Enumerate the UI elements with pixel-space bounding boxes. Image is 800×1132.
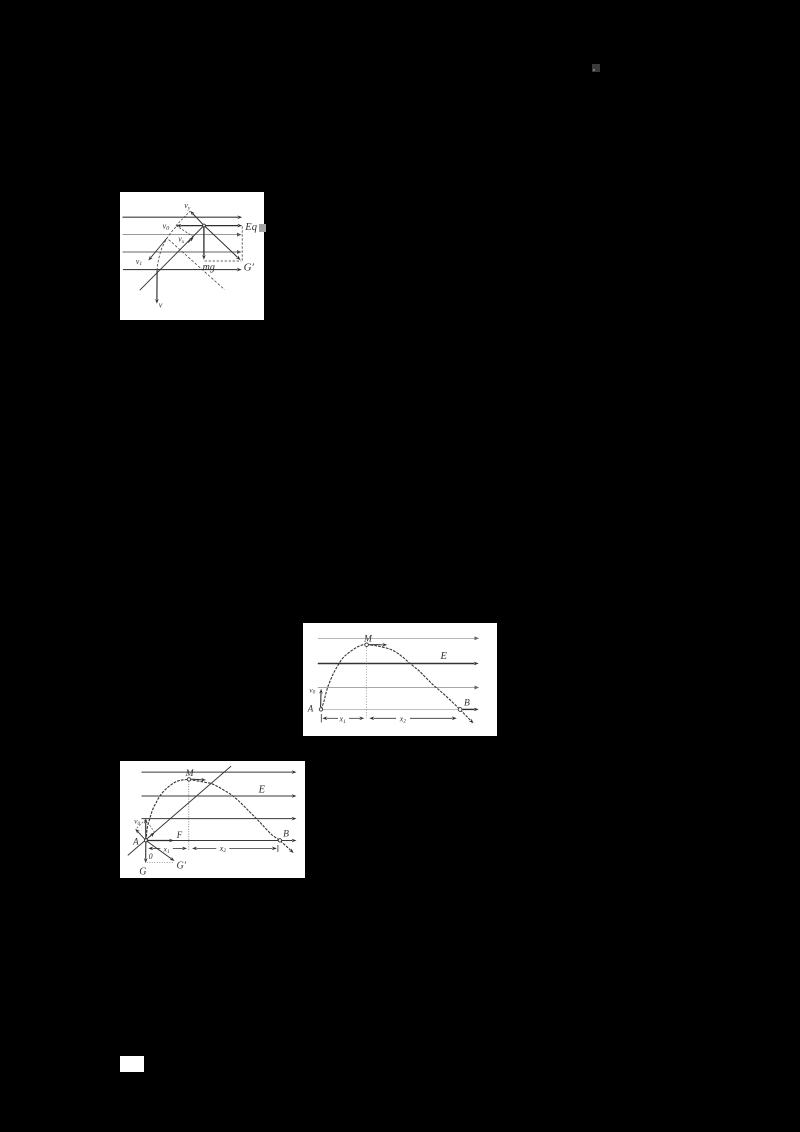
svg-text:x2: x2 <box>399 714 407 724</box>
vector G' <box>205 226 238 257</box>
vector G' <box>146 840 171 858</box>
arrowhead on diagonal near A <box>149 835 151 837</box>
svg-text:x2: x2 <box>218 843 226 853</box>
svg-text:E: E <box>257 784 265 795</box>
field line 3 <box>141 817 292 819</box>
svg-text:G: G <box>139 866 146 877</box>
dotted drop line from M <box>187 781 189 851</box>
trajectory right M to B and beyond <box>367 644 471 720</box>
vector v0 <box>181 225 204 227</box>
dashed side v0-vy <box>176 211 190 225</box>
svg-text:B: B <box>464 698 470 708</box>
svg-text:v0: v0 <box>309 685 315 695</box>
field line 1 <box>141 771 292 773</box>
svg-text:0: 0 <box>148 851 152 860</box>
node M <box>187 777 190 780</box>
vector mg <box>203 227 205 256</box>
bottom-left white chip <box>120 1056 144 1072</box>
field line 3 <box>318 686 475 688</box>
field line 4 <box>123 269 238 271</box>
x2 end tick <box>277 845 279 852</box>
svg-text:M: M <box>184 769 194 779</box>
field line 2 E <box>318 662 475 664</box>
vector v0 at A <box>320 693 322 707</box>
gray glyph block beside Eq <box>259 224 266 232</box>
dotted drop line from M <box>365 647 367 718</box>
baseline through A and B <box>321 708 470 710</box>
dashed parallelogram side horizontal <box>205 260 242 262</box>
dotted G to G' <box>146 861 172 863</box>
svg-text:M: M <box>363 634 373 644</box>
trajectory left A to M <box>146 779 189 840</box>
vx arrowhead on diagonal <box>188 240 191 243</box>
svg-text:v0: v0 <box>163 221 170 233</box>
svg-text:x1: x1 <box>339 714 347 724</box>
svg-text:G′: G′ <box>244 262 255 274</box>
field line 2 <box>141 795 292 797</box>
x1 dimension arrows <box>152 847 160 849</box>
perpendicular component arrow at A <box>138 831 146 840</box>
svg-text:F: F <box>175 830 182 840</box>
x1 dimension tick at A <box>320 714 322 723</box>
svg-text:v: v <box>159 301 163 310</box>
dashed side v0 to diagonal tip <box>145 819 154 832</box>
node M <box>365 642 369 646</box>
dashed side v0-vx <box>176 226 193 237</box>
vector v <box>156 270 158 299</box>
x1 dimension arrows <box>327 717 339 719</box>
node A <box>319 707 322 710</box>
dashed parallelogram side vertical <box>241 226 243 260</box>
svg-text:Eq: Eq <box>244 222 257 233</box>
dashed diagonal line <box>169 240 225 290</box>
field line 3 <box>123 251 238 253</box>
vector vy <box>193 214 204 226</box>
svg-text:vx: vx <box>178 235 185 245</box>
svg-text:vy: vy <box>184 201 191 211</box>
node A <box>144 838 147 841</box>
dashed side v0 to perp tip <box>135 819 145 829</box>
figure panel 3: trajectory with force decomposition at A <box>120 761 306 879</box>
svg-text:v1: v1 <box>136 257 143 267</box>
svg-text:A: A <box>132 836 139 846</box>
vector F along baseline <box>147 839 170 841</box>
main diagonal line <box>140 226 204 291</box>
field line 2 <box>123 234 238 236</box>
baseline through A and B <box>146 839 292 841</box>
particle node <box>203 224 206 227</box>
velocity arrow at M <box>369 643 383 645</box>
svg-text:A: A <box>307 703 314 713</box>
trajectory left A to M <box>321 644 367 709</box>
vector G down <box>144 842 146 859</box>
dashed trajectory curve <box>157 227 176 270</box>
svg-text:G′: G′ <box>176 860 186 871</box>
field line 1 <box>318 637 475 639</box>
vector v1 <box>151 238 167 257</box>
x2 dimension arrows <box>374 717 397 719</box>
long diagonal line <box>127 766 230 855</box>
svg-text:E: E <box>440 650 448 661</box>
vector Eq <box>205 225 238 227</box>
svg-text:B: B <box>283 829 289 839</box>
velocity arrow at M <box>191 778 202 781</box>
figure panel 1: force/velocity decomposition diagram <box>120 192 264 320</box>
vector at B <box>463 708 475 710</box>
small gray ui square top-right <box>592 64 600 72</box>
svg-text:x1: x1 <box>162 844 169 854</box>
field line 1 <box>123 216 239 218</box>
vector v0 at A <box>144 822 146 838</box>
node B <box>458 707 462 711</box>
svg-text:mg: mg <box>203 262 215 273</box>
node B <box>278 838 281 841</box>
trajectory right M to B and beyond <box>189 779 291 850</box>
x2 dimension arrows <box>196 847 216 849</box>
figure panel 2: trajectory A-M-B in field E <box>303 623 497 737</box>
